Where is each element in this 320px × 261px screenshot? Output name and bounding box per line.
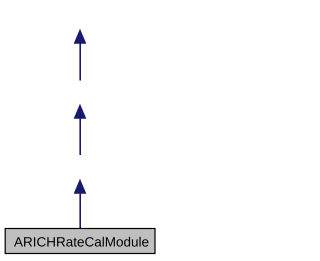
inheritance arrow 3 (bottom): [74, 180, 85, 228]
inheritance arrow 2 (middle): [74, 105, 85, 155]
class node box ARICHRateCalModule: [5, 229, 155, 254]
inheritance arrow 1 (top): [74, 30, 85, 81]
